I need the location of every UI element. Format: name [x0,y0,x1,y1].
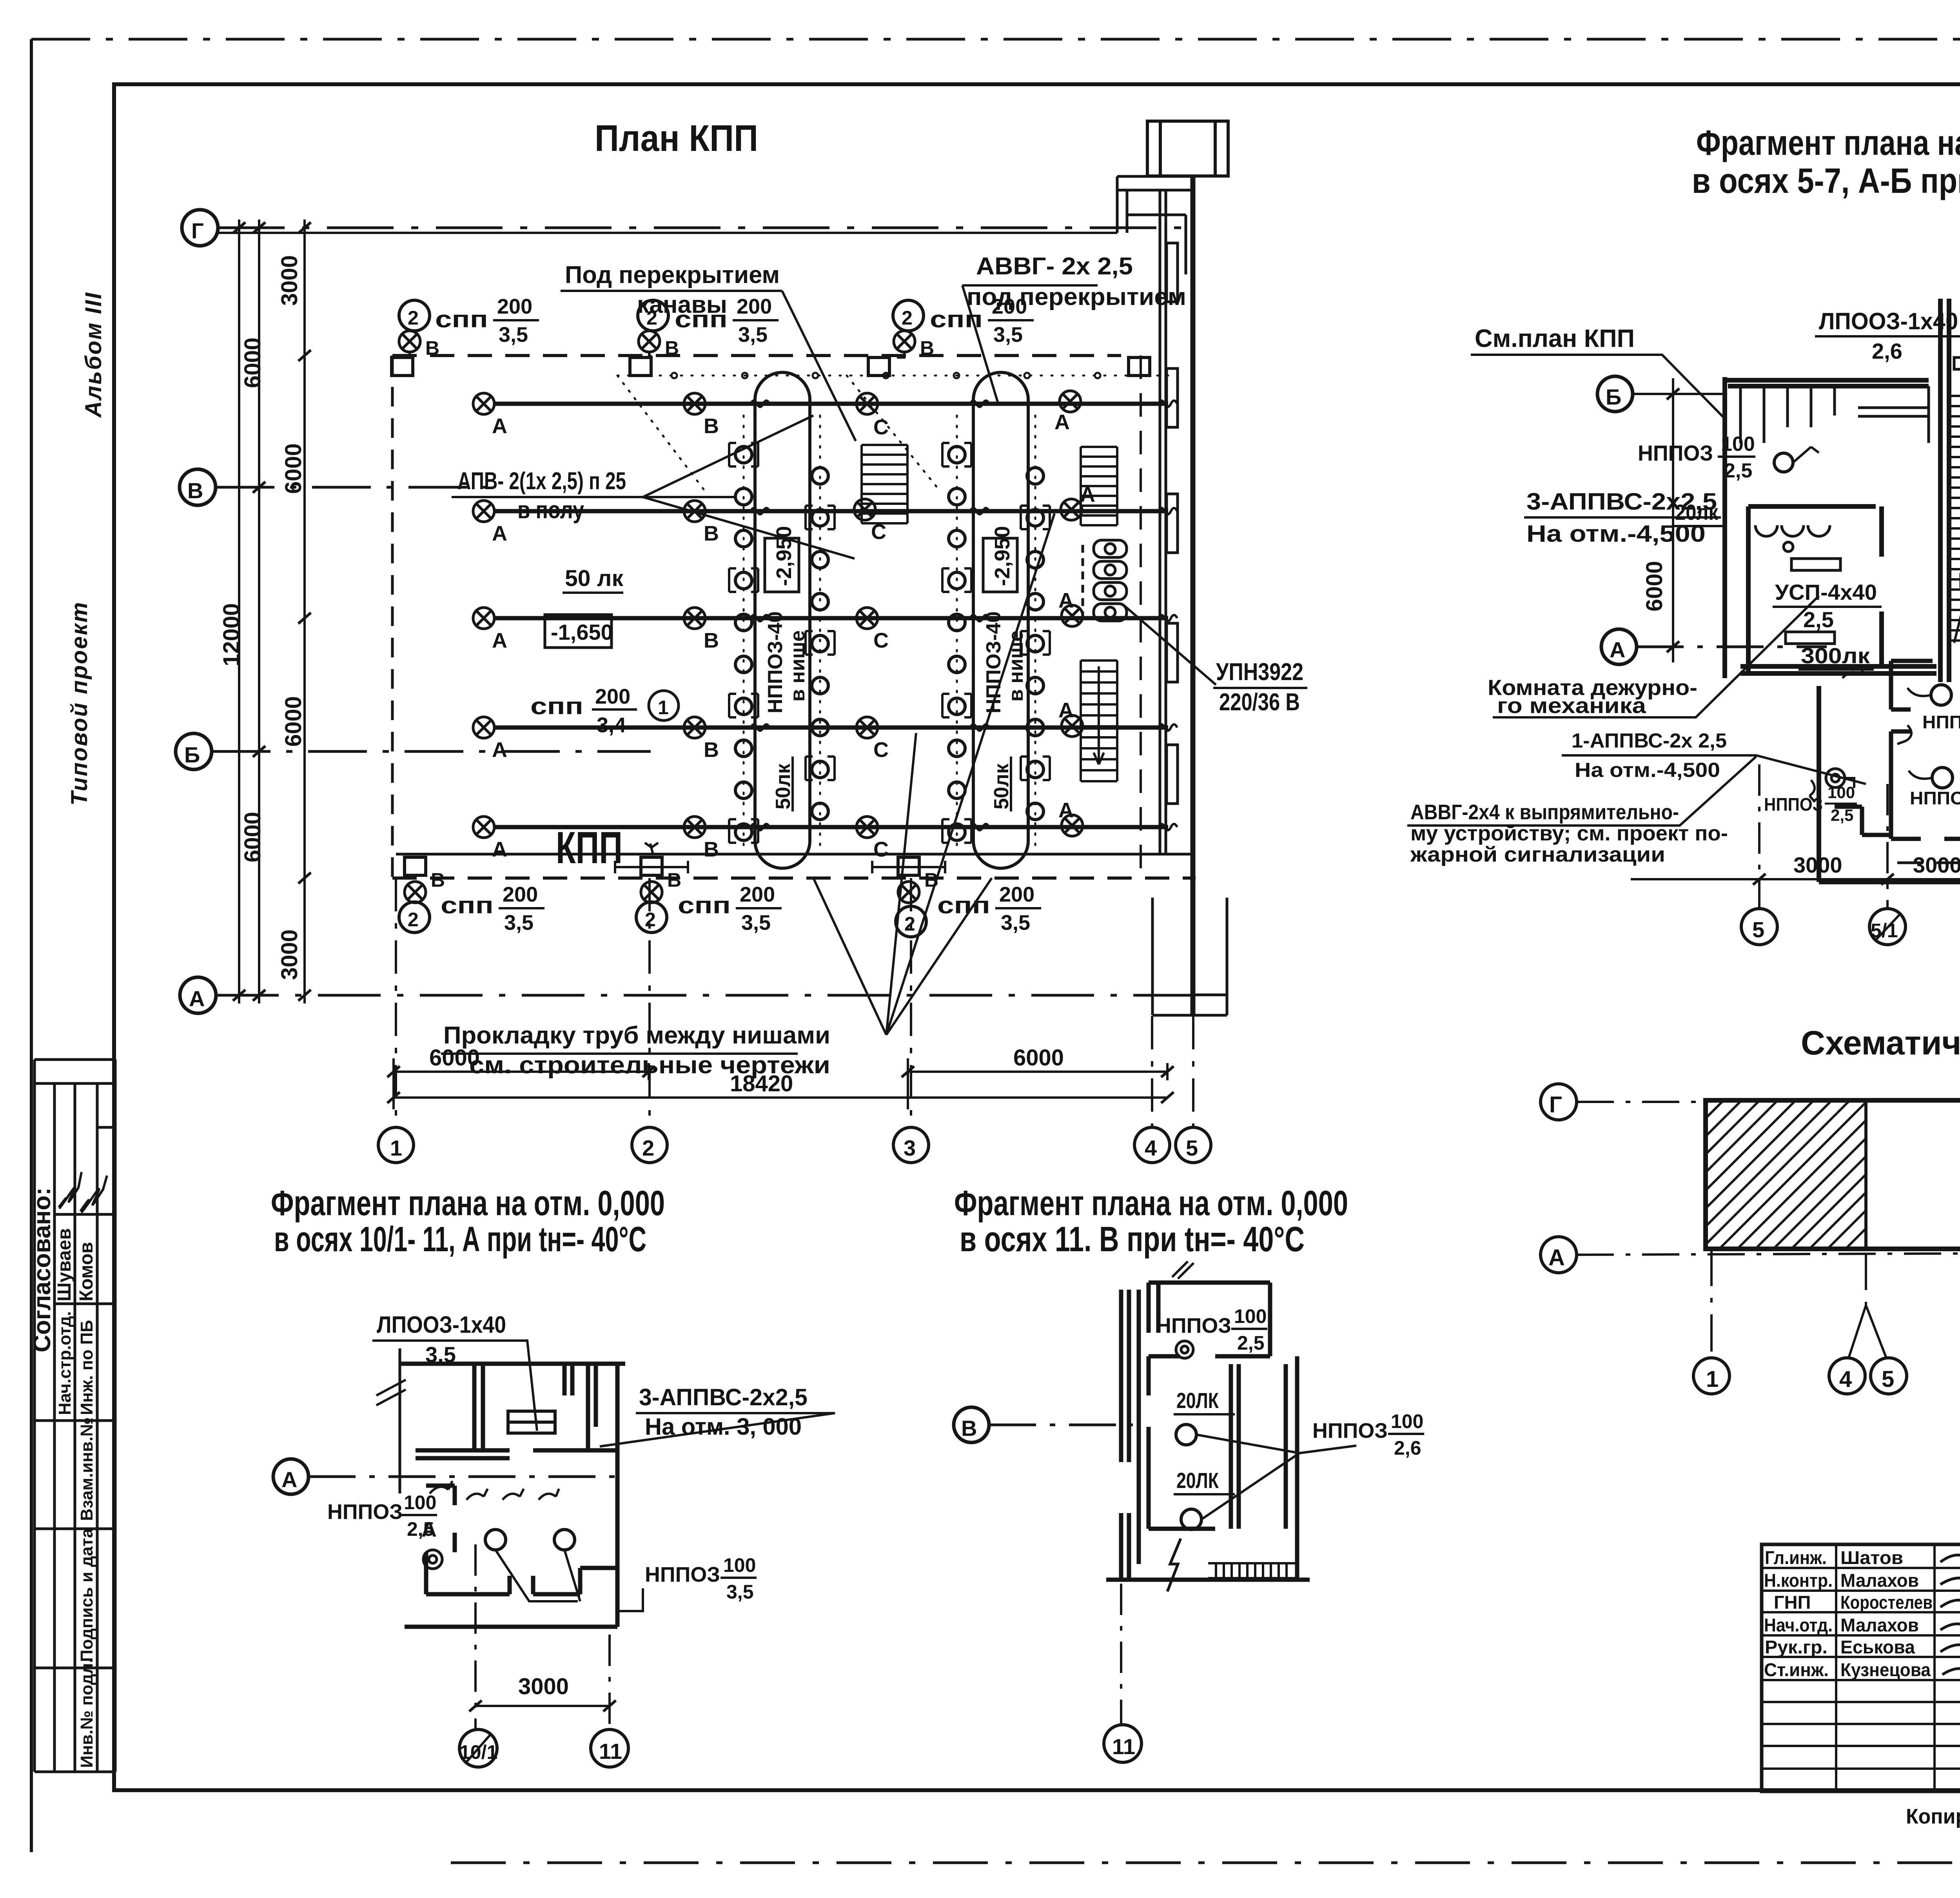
frag1 chandelier arcs [1755,525,1830,552]
svg-text:ЛПООЗ-1х40: ЛПООЗ-1х40 [1819,308,1958,334]
title block signature column texts [1764,1547,1933,1680]
svg-text:3,4: 3,4 [597,713,626,737]
svg-text:Взам.инв.№: Взам.инв.№ [77,1417,96,1521]
axis circle V [180,469,216,505]
svg-text:2,6: 2,6 [1394,1437,1421,1459]
niche light chain 2 right [1027,416,1044,851]
svg-text:Комов: Комов [76,1242,97,1301]
frag2 break mark [376,1380,406,1405]
svg-text:УСП-4х40: УСП-4х40 [1775,580,1877,604]
svg-text:спп: спп [937,892,990,918]
svg-text:2,5: 2,5 [407,1518,434,1540]
svg-text:Альбом III: Альбом III [81,292,106,418]
svg-text:В: В [665,337,679,359]
svg-text:3,5: 3,5 [726,1581,754,1603]
svg-text:В: В [431,869,445,891]
svg-text:Нач.отд.: Нач.отд. [1764,1615,1833,1635]
svg-text:А: А [492,522,507,545]
svg-text:НППОЗ: НППОЗ [1910,788,1960,808]
svg-text:А: А [189,986,205,1011]
bottom axis circle 2 [632,1127,667,1163]
svg-text:С: С [873,738,889,762]
svg-text:Гл.инж.: Гл.инж. [1765,1547,1827,1568]
svg-text:200: 200 [503,883,538,906]
svg-text:А: А [1058,589,1074,612]
svg-text:А: А [492,838,507,861]
svg-text:3,5: 3,5 [738,323,768,347]
svg-text:спп: спп [675,306,728,332]
svg-text:Б: Б [184,742,200,767]
leader V lines to niches [813,514,1054,1035]
row4 lamps [473,717,494,738]
svg-text:УПН3922: УПН3922 [1216,659,1303,686]
row2 lamps [473,501,494,522]
svg-text:3: 3 [904,1136,916,1160]
svg-text:в осях 10/1- 11, А при tн=- 4: в осях 10/1- 11, А при tн=- 40°С [274,1220,646,1259]
svg-text:1-АППВС-2х 2,5: 1-АППВС-2х 2,5 [1572,729,1727,752]
frag2 bottom dim [475,1705,610,1707]
frag2 switches [430,1481,559,1500]
svg-text:НППОЗ-40: НППОЗ-40 [764,611,787,713]
left dimension chain verticals [218,220,1117,1003]
svg-text:В: В [425,337,439,359]
sheet outer top dash-dot edge [31,38,1960,41]
svg-text:А: А [281,1467,297,1492]
svg-text:12000: 12000 [219,603,244,666]
svg-text:А: А [492,629,507,652]
frag2 building [400,1364,625,1627]
svg-text:А: А [492,414,507,438]
svg-text:2,5: 2,5 [1803,607,1834,632]
svg-text:А: А [1548,1245,1565,1270]
svg-text:2,6: 2,6 [1872,339,1902,363]
frag2 fixture rect [508,1411,555,1433]
svg-text:3000: 3000 [277,929,302,980]
axis circle G [1541,1084,1577,1120]
axis circle B frag1 [1597,376,1633,412]
svg-text:Фрагмент плана на отм. 0,000: Фрагмент плана на отм. 0,000 [271,1184,665,1223]
axis circle A [180,977,216,1013]
top ceiling wire dotted [617,375,1168,377]
niche light chain 1 right [812,416,828,851]
svg-text:АВВГ-2х4 к выпрямительно-: АВВГ-2х4 к выпрямительно- [1410,800,1679,824]
svg-text:НППОЗ: НППОЗ [1638,441,1713,465]
svg-text:100: 100 [1391,1410,1423,1432]
axis circle A frag1 [1601,629,1637,664]
stair block right lower [1081,660,1117,781]
svg-text:НППОЗ: НППОЗ [1156,1314,1231,1337]
svg-text:200: 200 [999,883,1034,906]
niche oval 2 [973,372,1028,868]
building top dashed wall [392,354,1121,357]
svg-text:в нише: в нише [1005,630,1027,702]
row5 lamps [473,817,494,838]
frag2 axis drop lines [475,1544,610,1729]
svg-text:Инж. по ПБ: Инж. по ПБ [77,1320,96,1415]
svg-text:НППОЗ: НППОЗ [1764,794,1823,815]
sheet outer left edge line [30,39,33,1852]
svg-text:На отм. 3, 000: На отм. 3, 000 [645,1414,802,1440]
svg-text:А: А [1610,637,1625,662]
schematic building rect [1706,1100,1960,1249]
bottom axis circle 5 [1176,1127,1211,1163]
lighting bus row 5 [495,825,1168,829]
svg-text:в осях 11. В при tн=- 40°С: в осях 11. В при tн=- 40°С [960,1220,1305,1259]
frag2 axis circle A [273,1459,309,1494]
stamp grid [34,1060,115,1772]
axis circle B [176,733,212,769]
frag1 switch hooks bottom [1809,780,1815,802]
frag3 axis drop line [1120,1584,1122,1725]
frag3 top break mark [1172,1261,1194,1279]
svg-text:Рук.гр.: Рук.гр. [1765,1637,1828,1657]
frag1 vertical dim 6000 [1672,378,1674,662]
sheet bottom dash-dot edge [451,1862,1960,1864]
svg-text:200: 200 [740,883,775,906]
svg-text:-1,650: -1,650 [551,620,613,644]
svg-text:220/36 В: 220/36 В [1219,689,1300,716]
svg-text:6000: 6000 [240,338,265,388]
svg-text:50 лк: 50 лк [565,566,624,591]
svg-text:спп: спп [530,693,583,719]
frag1 axis drop lines [1759,662,1960,909]
svg-text:В: В [704,414,719,438]
svg-text:Еськова: Еськова [1840,1637,1915,1657]
axis A dash-dot line [216,994,1196,997]
schematic hatched block [1706,1100,1866,1249]
schematic column drop lines [1711,1249,1960,1358]
axis B dash-dot line [212,750,651,753]
right bottom entrance structure [1152,898,1227,1015]
bottom SPP group 1 [405,882,426,903]
frag1 double circle device [1826,769,1845,788]
svg-text:АВВГ- 2х 2,5: АВВГ- 2х 2,5 [976,253,1133,280]
svg-text:С: С [873,416,889,439]
top wall column squares [392,357,413,376]
niche light chain 2 left [949,416,965,851]
svg-text:6000: 6000 [429,1045,480,1071]
frag3 axis circle 11 [1104,1725,1142,1762]
frag1 axis circle 5 [1741,909,1777,945]
svg-text:100: 100 [723,1554,756,1576]
axis G dash-dot line [218,227,1196,229]
lighting bus row 1 [495,402,1168,406]
frag3 double circle [1176,1341,1193,1358]
svg-text:НППОЗ: НППОЗ [1312,1419,1388,1443]
frag1 bottom-left room walls [1835,659,1960,839]
bottom dimension line 6000 segments [394,1058,1167,1109]
svg-text:Г: Г [191,218,204,243]
svg-text:100: 100 [404,1492,436,1513]
svg-text:2,5: 2,5 [1724,459,1752,482]
svg-text:Фрагмент плана на отм. 0,000: Фрагмент плана на отм. 0,000 [1696,123,1960,163]
svg-text:1: 1 [658,697,669,719]
bottom axis circle 4 [1134,1127,1170,1163]
svg-text:Типовой проект: Типовой проект [67,601,92,806]
frag1 building walls [1725,257,1960,882]
svg-text:3000: 3000 [1913,853,1960,877]
bottom axis circle 1 [378,1127,414,1163]
svg-text:Схематический план: Схематический план [1801,1024,1960,1062]
bottom axis circle 3 [893,1127,929,1163]
right wall panels [1167,243,1178,804]
svg-text:200: 200 [737,295,772,318]
frag1 USP fixture rects [1786,559,1840,644]
svg-text:НППОЗ: НППОЗ [645,1563,720,1586]
stamp rotated texts [29,1187,97,1768]
frag3 break zigzag bottom [1167,1539,1181,1591]
svg-text:20ЛК: 20ЛК [1176,1388,1219,1413]
svg-text:5: 5 [1752,917,1764,942]
svg-text:Инв.№ подл.: Инв.№ подл. [77,1658,96,1768]
roof parapet box top right [1147,121,1228,176]
stamp signatures squiggles [59,1172,107,1212]
svg-text:100: 100 [1234,1305,1267,1327]
svg-text:С: С [873,629,889,652]
svg-text:Под перекрытием: Под перекрытием [565,261,780,289]
svg-text:Б: Б [1606,385,1621,409]
schematic bottom axis circles 1,4,5,11 [1693,1358,1960,1394]
svg-text:В: В [961,1416,977,1441]
frag1 top partition stubs [1740,386,1929,443]
svg-text:3000: 3000 [518,1674,569,1699]
flexible-connection squiggles on rows [751,401,769,407]
svg-text:спп: спп [441,892,494,918]
frag1 fixture C [1954,357,1960,369]
svg-text:Г: Г [1549,1092,1562,1118]
svg-text:2: 2 [902,307,913,329]
axis V dash-dot line [216,486,486,489]
svg-text:Прокладку труб между нишами: Прокладку труб между нишами [443,1022,830,1049]
frag2 left wall tick [399,1348,401,1493]
svg-text:жарной сигнализации: жарной сигнализации [1410,843,1665,866]
frag3 lamp b [1181,1509,1201,1530]
svg-text:Кузнецова: Кузнецова [1840,1659,1931,1680]
bottom SPP group 3 [898,882,919,903]
svg-text:1: 1 [1706,1366,1719,1392]
frag1 bottom lamps [1931,685,1953,788]
dimension ticks left chain [233,222,245,233]
svg-text:АПВ- 2(1х 2,5) п 25: АПВ- 2(1х 2,5) п 25 [457,468,626,495]
svg-text:10/1: 10/1 [459,1741,497,1763]
frag3 axis circle V [954,1407,989,1443]
frag2 double circle [423,1550,442,1569]
bottom axis drop dash-dot lines [396,878,1193,1127]
svg-text:В: В [704,838,719,861]
building bottom solid wall [396,853,1192,856]
label -2,950 box 1 [765,538,799,592]
svg-text:Согласовано:: Согласовано: [29,1187,56,1352]
svg-text:4: 4 [1839,1366,1852,1392]
svg-text:На отм.-4,500: На отм.-4,500 [1526,521,1706,547]
frag1 central stair treads [1949,396,1960,643]
svg-text:В: В [704,522,719,545]
svg-text:НППОЗ: НППОЗ [327,1500,403,1524]
svg-text:В: В [667,869,681,891]
right wall dashed axis [1140,356,1142,878]
svg-text:го механика: го механика [1497,693,1646,718]
svg-text:А: А [1058,699,1074,722]
label -1,650 box [545,615,612,648]
svg-text:11: 11 [1112,1734,1135,1759]
svg-text:В: В [704,738,719,762]
svg-text:3-АППВС-2х2,5: 3-АППВС-2х2,5 [639,1384,808,1410]
top SPP group 1 [399,300,430,331]
lighting bus row 4 [495,726,1168,730]
svg-text:2: 2 [408,307,419,329]
top SPP group 2 [638,300,668,331]
svg-text:А: А [492,738,507,762]
signature squiggles column [1940,1541,1960,1675]
schematic axis dash lines [1577,1102,1960,1255]
svg-text:2,5: 2,5 [1237,1332,1265,1354]
svg-text:11: 11 [599,1739,622,1764]
axis circle A [1541,1237,1577,1273]
right wall inner double line [1160,190,1166,854]
svg-text:НПО: НПО [1958,568,1960,593]
svg-text:в полу: в полу [517,497,584,524]
niche oval 1 [755,372,810,868]
svg-text:2: 2 [408,909,419,931]
svg-text:6000: 6000 [1642,561,1667,611]
svg-text:Ст.инж.: Ст.инж. [1764,1659,1829,1680]
svg-text:КПП: КПП [556,823,622,873]
svg-text:3,5: 3,5 [1001,911,1030,934]
svg-text:Шатов: Шатов [1840,1547,1903,1568]
svg-text:6000: 6000 [281,443,306,494]
svg-text:6000: 6000 [281,696,306,747]
svg-text:3,5: 3,5 [499,323,528,347]
lighting bus row 3 [495,616,1168,621]
svg-text:300лк: 300лк [1801,643,1870,668]
frag2 axis A dash line [309,1475,627,1478]
svg-text:му устройству; см. проект по-: му устройству; см. проект по- [1410,822,1728,845]
frag1 lamp round [1774,453,1793,472]
building bottom dashed wall [392,876,1196,880]
svg-text:3,5: 3,5 [504,911,534,934]
svg-text:50лк: 50лк [990,763,1013,809]
frag3 bottom comb hatch [1208,1563,1298,1578]
row3 lamps [473,608,494,629]
svg-text:3,5: 3,5 [993,323,1023,347]
svg-text:С: С [873,838,889,861]
svg-text:-2,950: -2,950 [991,526,1014,586]
svg-text:спп: спп [930,306,983,332]
diagonal feeder wires dotted [617,356,941,492]
svg-text:2: 2 [642,1136,654,1160]
svg-text:В: В [187,478,203,503]
svg-text:Фрагмент плана на отм. 0,000: Фрагмент плана на отм. 0,000 [954,1184,1348,1223]
row1 lamps [473,393,494,414]
svg-text:5: 5 [1882,1366,1894,1392]
svg-text:2,5: 2,5 [1831,806,1853,824]
frag1 bottom dim line [1631,878,1960,880]
svg-text:в осях 5-7, А-Б при tн=- 40°С: в осях 5-7, А-Б при tн=- 40°С [1692,161,1960,201]
frag2 lower walls [426,1486,617,1594]
svg-text:50лк: 50лк [772,763,795,809]
svg-text:1: 1 [390,1136,402,1160]
frag1 axis circle 5/1 [1869,909,1906,945]
frag3 lamp a [1176,1424,1196,1445]
svg-text:НППОЗ: НППОЗ [1922,712,1960,732]
svg-text:6000: 6000 [240,812,265,862]
svg-text:А: А [1054,410,1070,434]
svg-text:В: В [920,337,934,359]
svg-text:6000: 6000 [1013,1045,1064,1071]
svg-text:В: В [704,629,719,652]
svg-text:Малахов: Малахов [1840,1615,1919,1635]
bottom dimension line 18420 [394,1096,1167,1099]
svg-text:3000: 3000 [1793,853,1842,877]
svg-text:2: 2 [904,913,915,935]
bottom SPP group 2 [641,882,662,903]
svg-text:2: 2 [646,307,657,329]
svg-text:20ЛК: 20ЛК [1176,1468,1219,1493]
bottom wall column squares [405,857,426,875]
svg-text:Копировал:: Копировал: [1906,1805,1960,1828]
transformer group UPN [1083,540,1127,621]
right wall outer double line [1192,176,1194,1016]
svg-text:План КПП: План КПП [595,118,758,159]
building left dashed wall [391,356,394,878]
label -2,950 box 2 [983,538,1017,592]
frag3 axis V dash line [989,1424,1133,1426]
niche bracket marks [729,443,1050,843]
svg-text:См.план КПП: См.план КПП [1475,324,1635,352]
svg-text:А: А [1058,798,1074,822]
stair block mid [862,445,907,523]
svg-text:Подпись и дата: Подпись и дата [77,1528,96,1662]
top SPP group 3 [893,300,924,331]
svg-text:спп: спп [678,892,731,918]
svg-text:На отм.-4,500: На отм.-4,500 [1575,759,1720,782]
svg-text:Коростелев: Коростелев [1840,1592,1933,1613]
svg-text:Малахов: Малахов [1840,1570,1919,1591]
svg-text:3,5: 3,5 [741,911,771,934]
frag3 building [1106,1283,1310,1581]
frag2 axis circle 11 [591,1729,628,1767]
svg-text:200: 200 [595,685,630,708]
svg-text:ЛПООЗ-1х40: ЛПООЗ-1х40 [377,1312,506,1338]
svg-text:20лк: 20лк [1675,500,1719,524]
frag1 bottom dashed wall [1897,862,1960,864]
stair block right top [1081,447,1117,525]
bottom column dim bars [615,843,945,873]
svg-text:4: 4 [1145,1136,1157,1160]
svg-text:3000: 3000 [277,255,302,306]
svg-text:200: 200 [497,295,532,318]
svg-text:200: 200 [992,295,1027,318]
frag2 lamps [485,1530,575,1550]
svg-text:18420: 18420 [730,1071,793,1096]
svg-text:Шуваев: Шуваев [54,1228,75,1301]
svg-text:5: 5 [1186,1136,1198,1160]
niche light chain 1 left [735,416,752,851]
svg-text:спп: спп [435,306,488,332]
axis circle G [182,210,218,246]
lighting bus row 2 [495,509,1168,514]
right top extension [1117,176,1194,274]
svg-text:Нач.стр.отд.: Нач.стр.отд. [55,1311,74,1415]
svg-text:Н.контр.: Н.контр. [1764,1570,1833,1591]
svg-text:в нише: в нише [786,630,809,702]
frag2 axis circle 10/1 [459,1729,497,1767]
svg-text:ГНП: ГНП [1774,1592,1811,1613]
